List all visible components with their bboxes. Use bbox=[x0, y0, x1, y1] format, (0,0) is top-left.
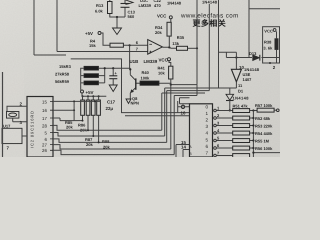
resistor R87 bbox=[91, 100, 95, 115]
wire pin17 line bbox=[53, 118, 74, 121]
svg-text:U17: U17 bbox=[3, 124, 11, 129]
wire U17 to IC bbox=[22, 135, 27, 137]
junction dot D1/row1 bbox=[229, 109, 231, 111]
wire bus V1 bbox=[196, 0, 198, 85]
wire R13 top stub bbox=[109, 0, 111, 2]
box aux (14/15) bbox=[176, 145, 190, 158]
svg-text:R53 220k: R53 220k bbox=[255, 124, 273, 129]
wire maze pin6 bbox=[53, 139, 167, 143]
svg-text:R56 100k: R56 100k bbox=[255, 146, 273, 151]
op-amp U1C (cut at top edge) bbox=[126, 0, 134, 5]
resistor R13 bbox=[108, 2, 113, 14]
svg-text:15k: 15k bbox=[89, 43, 96, 48]
wire junction to ground bbox=[116, 17, 118, 28]
junction dot R35/bus bbox=[196, 47, 198, 49]
wire crystal to pin3 bbox=[13, 118, 27, 122]
wire C13 bottom bbox=[124, 7, 126, 17]
junction dot R4/divider bbox=[129, 44, 131, 46]
wire maze pin26 bbox=[53, 150, 174, 154]
svg-text:470: 470 bbox=[154, 3, 161, 8]
resistor R59 bbox=[84, 81, 99, 85]
IC pin stub ticks bbox=[50, 101, 53, 150]
svg-text:3: 3 bbox=[206, 124, 209, 129]
junction dots divider bbox=[104, 67, 106, 69]
box VCC pullup (top right) bbox=[263, 27, 280, 63]
svg-text:20k: 20k bbox=[66, 125, 73, 130]
svg-text:R57 100k: R57 100k bbox=[255, 103, 273, 108]
svg-text:LM339: LM339 bbox=[144, 59, 158, 64]
svg-text:0: 0 bbox=[206, 104, 209, 109]
capacitor C17 top wire bbox=[112, 68, 114, 76]
svg-text:22μ: 22μ bbox=[106, 106, 114, 111]
wire nested vertical v4 bbox=[173, 96, 175, 155]
wire R38 down bbox=[276, 31, 278, 63]
svg-text:14: 14 bbox=[181, 145, 186, 150]
junction dot box bottom bbox=[269, 62, 271, 64]
svg-text:10k: 10k bbox=[158, 71, 165, 76]
svg-text:7: 7 bbox=[206, 151, 209, 156]
wire emitter Q8 bbox=[129, 93, 131, 99]
ground symbol for R13/C13 bbox=[113, 28, 122, 35]
svg-text:6: 6 bbox=[206, 144, 209, 149]
svg-text:R35: R35 bbox=[177, 35, 185, 40]
svg-text:R88: R88 bbox=[102, 139, 110, 144]
connector box J1 bbox=[190, 104, 213, 157]
junction dot D13 rail bbox=[235, 56, 237, 58]
junction dot collector bbox=[129, 68, 131, 70]
resistor R88 bbox=[97, 100, 101, 115]
wire mid band RB2 bbox=[165, 87, 237, 89]
transistor Q2 (Q8) bbox=[130, 75, 140, 93]
vertical bus ladder bbox=[253, 111, 280, 158]
capacitor C17 bbox=[109, 76, 117, 79]
wire R41 bottom bbox=[170, 79, 172, 85]
wire left common of R3/R58/R59 bbox=[81, 68, 84, 90]
box U17 bbox=[2, 128, 22, 143]
wire maze pin5 bbox=[53, 133, 165, 137]
svg-text:+5V: +5V bbox=[86, 90, 94, 95]
svg-text:28: 28 bbox=[42, 123, 47, 128]
svg-text:27kR58: 27kR58 bbox=[55, 72, 70, 77]
svg-text:17: 17 bbox=[42, 116, 47, 121]
wire rail stubs to R85-R88 bbox=[83, 96, 99, 100]
svg-text:D13: D13 bbox=[249, 51, 257, 56]
wire collector Q8 bbox=[129, 68, 131, 75]
wire R35 to vertical bus bbox=[188, 47, 198, 49]
svg-text:VCC: VCC bbox=[157, 14, 167, 19]
svg-text:U1B: U1B bbox=[130, 59, 139, 64]
wire nested vertical v3 bbox=[166, 91, 168, 143]
wire +5V rail bbox=[82, 95, 106, 97]
resistor R86 bbox=[86, 100, 90, 115]
wire R88 bottom drop bbox=[98, 115, 100, 142]
wire nested vertical v1 bbox=[161, 93, 163, 130]
resistor R85 bbox=[81, 100, 85, 115]
svg-text:1N4148: 1N4148 bbox=[233, 96, 250, 101]
wire 16 to box bbox=[178, 101, 190, 113]
svg-text:15kR3: 15kR3 bbox=[59, 64, 72, 69]
svg-text:20k: 20k bbox=[155, 30, 162, 35]
wire R41 node drop bbox=[170, 85, 172, 149]
wire C13 top stub bbox=[124, 0, 126, 4]
ground symbol C17 bbox=[109, 85, 117, 92]
wire bus V4 corner bbox=[219, 51, 237, 53]
wire R4 to pin6 bbox=[123, 44, 147, 46]
junction dots rail bbox=[82, 95, 84, 97]
svg-text:C17: C17 bbox=[107, 100, 116, 105]
inverter U3E bbox=[231, 69, 241, 82]
wire maze h y121 bbox=[74, 120, 82, 122]
wire U3E out to D1 bbox=[219, 82, 237, 95]
box enclosure inner bottom bbox=[125, 115, 190, 117]
resistor R4 bbox=[110, 43, 123, 47]
resistor R35 bbox=[177, 46, 188, 50]
diode D1 bbox=[226, 94, 234, 100]
junction dot R41/R40 bbox=[170, 84, 172, 86]
wire C17 to ground bbox=[112, 79, 114, 85]
op-amp U1B bbox=[148, 40, 163, 55]
wire D13 rail bbox=[226, 52, 280, 57]
wire corner A bottom bbox=[34, 54, 66, 56]
wire pin15 line bbox=[53, 100, 101, 102]
svg-text:R54 440k: R54 440k bbox=[255, 131, 273, 136]
resistor R40 bbox=[140, 81, 159, 85]
wire VCC2 to R41 bbox=[169, 61, 171, 66]
IC pin labels right side bbox=[42, 99, 48, 153]
wire bus V4 bbox=[218, 0, 220, 88]
svg-text:R40: R40 bbox=[142, 70, 150, 75]
junction dot ladder bus bottom bbox=[252, 152, 254, 154]
IC U4 box (MCU 89C51) bbox=[27, 97, 53, 158]
ground symbol Q8 emitter bbox=[126, 99, 131, 104]
wire R40 to junction bbox=[159, 83, 171, 84]
wire right net of R3 bbox=[99, 67, 131, 69]
svg-text:4: 4 bbox=[206, 131, 209, 136]
svg-text:16: 16 bbox=[181, 111, 186, 116]
diode D13 bbox=[253, 55, 260, 61]
svg-text:56kR59: 56kR59 bbox=[55, 79, 70, 84]
wire divider vertical bbox=[129, 45, 131, 69]
wire maze pin27 bbox=[53, 145, 171, 149]
wire U1B output bbox=[162, 47, 176, 48]
wire mid band RB1 bbox=[171, 84, 197, 86]
wire +5V to R4 bbox=[101, 33, 110, 45]
wire D1 to row1 bbox=[229, 101, 231, 111]
capacitor C13 bbox=[121, 4, 130, 8]
svg-text:1: 1 bbox=[206, 111, 209, 116]
svg-text:2: 2 bbox=[206, 118, 209, 123]
resistor R58 bbox=[84, 74, 99, 78]
svg-text:13k: 13k bbox=[172, 41, 179, 46]
svg-text:R13: R13 bbox=[96, 3, 104, 8]
wire nested vertical v2 bbox=[164, 88, 166, 136]
svg-text:NPN: NPN bbox=[131, 100, 140, 105]
wire R87 bottom drop bbox=[92, 115, 94, 136]
wire bus V5 bbox=[248, 0, 250, 58]
resistor R41 bbox=[169, 66, 173, 79]
wire R85 bottom drop bbox=[82, 115, 84, 120]
svg-text:16: 16 bbox=[42, 108, 47, 113]
wire mid band RB3 bbox=[167, 90, 210, 92]
wire to U3E input bbox=[235, 52, 237, 69]
junction dot output/R34 bbox=[168, 46, 170, 48]
wire mid band RB6 bbox=[180, 98, 190, 104]
connector internal digits bbox=[206, 104, 209, 155]
svg-text:3. 6k: 3. 6k bbox=[263, 45, 273, 50]
wire R57 out bbox=[274, 109, 276, 111]
svg-text:D1: D1 bbox=[238, 88, 244, 93]
resistor R57 bbox=[257, 108, 274, 112]
svg-text:R38: R38 bbox=[264, 39, 272, 44]
wire VCC to R34 bbox=[170, 19, 172, 23]
wire left border vertical bbox=[2, 72, 4, 157]
svg-text:VCC: VCC bbox=[264, 29, 273, 34]
svg-text:VCC: VCC bbox=[159, 58, 169, 63]
wire R34 to output junction bbox=[168, 36, 170, 47]
wire vertical long B bbox=[56, 0, 58, 52]
svg-text:27: 27 bbox=[42, 143, 47, 148]
wire bus V2 bbox=[208, 4, 210, 91]
wire +5V to rail bbox=[81, 90, 82, 96]
svg-text:LM339: LM339 bbox=[139, 3, 152, 8]
resistor R3 bbox=[84, 66, 99, 70]
wire top right horizontal bbox=[249, 8, 280, 10]
junction dot R13/C13 bbox=[116, 16, 118, 18]
crystal Y1 bbox=[7, 112, 19, 119]
svg-text:15: 15 bbox=[42, 99, 47, 104]
svg-text:1407: 1407 bbox=[243, 77, 253, 82]
resistor R38 bbox=[275, 39, 278, 50]
wire pin16 line bbox=[53, 109, 74, 111]
node +5V (lower) bbox=[81, 90, 84, 93]
wire to pin7 of U1B bbox=[57, 51, 148, 53]
wire mid band RB5 bbox=[174, 85, 197, 96]
svg-text:R51 47k: R51 47k bbox=[233, 103, 249, 108]
wire R86 bottom drop bbox=[87, 115, 89, 130]
svg-text:100k: 100k bbox=[141, 76, 151, 81]
wire pin2 to crystal bbox=[7, 106, 27, 111]
svg-text:560: 560 bbox=[128, 14, 135, 19]
svg-text:1N4148: 1N4148 bbox=[167, 1, 182, 6]
wire pin16 drop bbox=[73, 101, 75, 120]
svg-text:R52 68k: R52 68k bbox=[255, 116, 271, 121]
wire row1 to R57 bbox=[250, 110, 258, 112]
wire R13 bottom bbox=[110, 14, 125, 18]
node 16 terminal bbox=[181, 105, 184, 108]
svg-text:+5V: +5V bbox=[85, 31, 93, 36]
emitter arrow Q8 bbox=[130, 89, 134, 93]
svg-text:26: 26 bbox=[42, 148, 47, 153]
resistor R34 bbox=[167, 22, 171, 36]
wire vertical long A bbox=[33, 0, 35, 55]
svg-text:1N4148: 1N4148 bbox=[202, 0, 218, 5]
svg-text:IC2 89C516RD: IC2 89C516RD bbox=[30, 110, 35, 148]
svg-text:5: 5 bbox=[206, 137, 209, 142]
resistor R51 bbox=[233, 109, 250, 113]
wire mid band RB4 bbox=[162, 92, 205, 94]
svg-text:R55 1M: R55 1M bbox=[255, 139, 270, 144]
wire right R58/R59 to vert bbox=[99, 68, 105, 83]
wire maze pin28 bbox=[53, 125, 162, 130]
box enclosure mid bbox=[71, 59, 190, 113]
svg-text:6.0k: 6.0k bbox=[95, 8, 104, 13]
